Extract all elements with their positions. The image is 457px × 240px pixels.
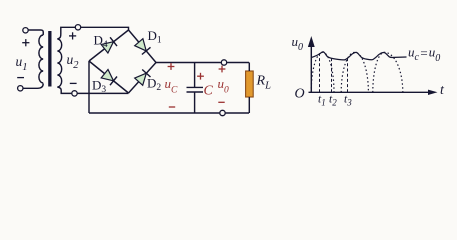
graph y-axis	[310, 44, 312, 93]
plus u2	[69, 35, 76, 37]
minus u0	[218, 101, 224, 103]
terminal: output plus	[221, 60, 226, 65]
wire: bottom minus rail	[89, 112, 249, 114]
capacitor C plates	[187, 86, 204, 88]
plus u1	[22, 42, 29, 44]
wire: top rail u2+ to bridge top node	[81, 27, 129, 30]
graph x-axis	[309, 91, 431, 93]
capacitor plus mark	[197, 75, 204, 77]
wire RL bottom	[248, 97, 250, 113]
resistor RL body	[246, 71, 254, 97]
wire: bridge left node down to minus rail	[88, 61, 90, 113]
diode D1	[129, 30, 157, 63]
capacitor C top lead	[194, 63, 196, 88]
uC=u0 ripple curve	[311, 52, 406, 60]
svg-text:O: O	[295, 87, 305, 102]
terminal: u1 top	[23, 28, 28, 33]
dashed t1 line	[319, 54, 321, 93]
secondary winding	[57, 39, 61, 87]
wire: u2 to bridge bottom node	[77, 92, 128, 94]
terminal: output minus	[220, 110, 225, 115]
minus u2	[70, 82, 77, 84]
plus uC	[168, 66, 175, 68]
wire: primary top lead	[28, 30, 43, 35]
wire: secondary bottom lead	[57, 87, 71, 93]
minus u1	[17, 77, 24, 79]
wire: secondary top lead	[57, 27, 75, 39]
diode D2	[129, 63, 157, 94]
dotted rectified sine arches	[311, 52, 403, 92]
svg-text:C: C	[204, 84, 214, 99]
wire: primary bottom lead	[23, 84, 43, 89]
terminal: u2 top	[75, 25, 80, 30]
minus uC	[169, 106, 175, 108]
diode D3	[89, 61, 129, 93]
dashed t3 line	[347, 56, 349, 92]
primary winding	[39, 35, 43, 83]
terminal: u1 bottom	[18, 86, 23, 91]
terminal: u2 bottom	[72, 91, 77, 96]
capacitor C bottom lead	[194, 92, 196, 113]
transformer core	[48, 31, 51, 87]
wire: plus rail from bridge right node	[156, 62, 249, 64]
dashed t2 line	[331, 59, 333, 93]
plus u0	[219, 68, 226, 70]
diode D4	[89, 30, 129, 61]
wire RL top	[248, 63, 250, 72]
